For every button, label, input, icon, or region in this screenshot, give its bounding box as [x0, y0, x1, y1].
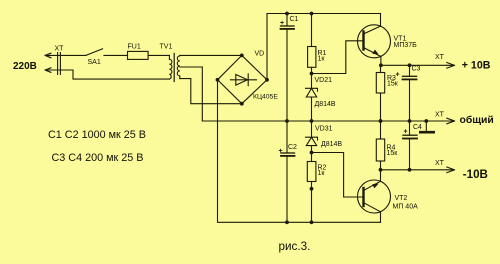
wire VT1 base [312, 41, 363, 74]
svg-text:общий: общий [460, 114, 494, 126]
svg-text:С1 С2 1000 мк 25 В: С1 С2 1000 мк 25 В [48, 129, 146, 141]
svg-text:15к: 15к [387, 81, 399, 88]
resistor R2 [307, 153, 316, 223]
capacitor C1 [281, 14, 295, 122]
node bridge right corner [265, 78, 269, 82]
ground symbol [420, 121, 433, 132]
capacitor C2 [281, 121, 295, 222]
arrow +10V [447, 63, 455, 69]
wire bridge plus to top rail [267, 14, 381, 80]
zener VD31 [306, 121, 318, 153]
arrow common [447, 118, 455, 124]
wire -10V output line [381, 169, 447, 171]
resistor R3 [376, 65, 384, 121]
node R1 top [310, 12, 314, 16]
zener VD21 [306, 74, 318, 122]
svg-text:VD21: VD21 [315, 77, 333, 84]
svg-text:TV1: TV1 [160, 44, 173, 51]
node XT input plug arrows [45, 53, 51, 72]
svg-text:+ 10В: + 10В [462, 59, 491, 71]
svg-text:1к: 1к [318, 56, 326, 63]
svg-text:XT: XT [435, 160, 445, 167]
svg-text:+: + [396, 72, 400, 79]
svg-text:XT: XT [55, 46, 65, 53]
svg-text:XT: XT [435, 54, 445, 61]
transistor VT1 [358, 25, 391, 66]
svg-text:VD31: VD31 [315, 126, 333, 133]
node VT1 emitter junction [379, 63, 383, 67]
svg-text:220В: 220В [13, 61, 37, 72]
capacitor C3 [403, 65, 417, 121]
svg-text:Д814В: Д814В [321, 141, 342, 148]
wire bottom input line [45, 70, 169, 79]
bridge rectifier VD diamond [218, 55, 268, 103]
switch SA1 blade [86, 49, 103, 56]
transistor VT2 [358, 170, 391, 223]
transformer TV1 core [173, 54, 175, 82]
svg-text:Д814В: Д814В [315, 101, 336, 108]
svg-text:МП 40А: МП 40А [393, 204, 419, 211]
wire +10V output line [381, 64, 447, 66]
svg-text:C2: C2 [288, 144, 297, 151]
svg-text:КЦ405Е: КЦ405Е [253, 93, 278, 100]
arrow -10V [447, 167, 455, 173]
svg-text:XT: XT [435, 112, 445, 119]
wire common rail [202, 120, 446, 122]
svg-text:FU1: FU1 [128, 44, 141, 51]
svg-text:рис.3.: рис.3. [279, 240, 311, 253]
transformer TV1 primary winding [169, 55, 172, 79]
node R4 bottom [379, 168, 383, 172]
wire secondary top to bridge [180, 54, 242, 56]
wire secondary center tap [180, 67, 203, 121]
svg-text:VT2: VT2 [395, 195, 408, 202]
svg-text:C4: C4 [413, 124, 422, 131]
node common zeners [310, 119, 314, 123]
svg-text:SA1: SA1 [88, 59, 101, 66]
node common C1C2 [285, 119, 289, 123]
svg-text:+: + [280, 20, 284, 27]
fuse FU1 [128, 51, 149, 59]
node bridge left corner [216, 78, 220, 82]
wire secondary bottom to bridge [180, 79, 242, 104]
node bridge top corner [240, 54, 244, 58]
resistor R1 [308, 14, 316, 74]
svg-text:С3 С4 200 мк 25 В: С3 С4 200 мк 25 В [52, 152, 144, 164]
node VT1 base node [310, 72, 314, 76]
node common R3R4 [379, 119, 383, 123]
svg-text:МП37Б: МП37Б [394, 42, 418, 49]
resistor R4 [376, 121, 384, 170]
svg-text:VD: VD [255, 51, 265, 58]
transformer TV1 secondary winding [177, 55, 179, 78]
wire bridge minus down to bottom rail [218, 80, 381, 223]
node common ground tap [424, 119, 428, 123]
capacitor C4 [403, 121, 417, 170]
node bridge bottom corner [240, 102, 244, 106]
svg-text:+: + [404, 129, 408, 136]
node R2 rail junction [310, 220, 314, 224]
node C1 top [285, 12, 289, 16]
node C3 top [408, 63, 412, 67]
node R2 bottom dot [310, 187, 314, 191]
node C4 bottom [408, 168, 412, 172]
node C2 bottom rail junction [285, 220, 289, 224]
svg-text:1к: 1к [318, 170, 326, 177]
connector XT double bars [58, 53, 61, 75]
svg-text:C3: C3 [412, 66, 421, 73]
wire VT2 base [312, 153, 363, 198]
svg-text:+: + [279, 148, 283, 155]
node VT2 base node [310, 151, 314, 155]
wire top input line [45, 54, 86, 56]
wire switch to fuse [104, 54, 128, 56]
svg-text:15к: 15к [387, 150, 399, 157]
svg-text:-10В: -10В [463, 168, 488, 181]
svg-text:C1: C1 [290, 16, 299, 23]
node common C3C4 [408, 119, 412, 123]
wire VT1 collector drop [380, 14, 382, 27]
bridge inner diode [230, 74, 256, 86]
